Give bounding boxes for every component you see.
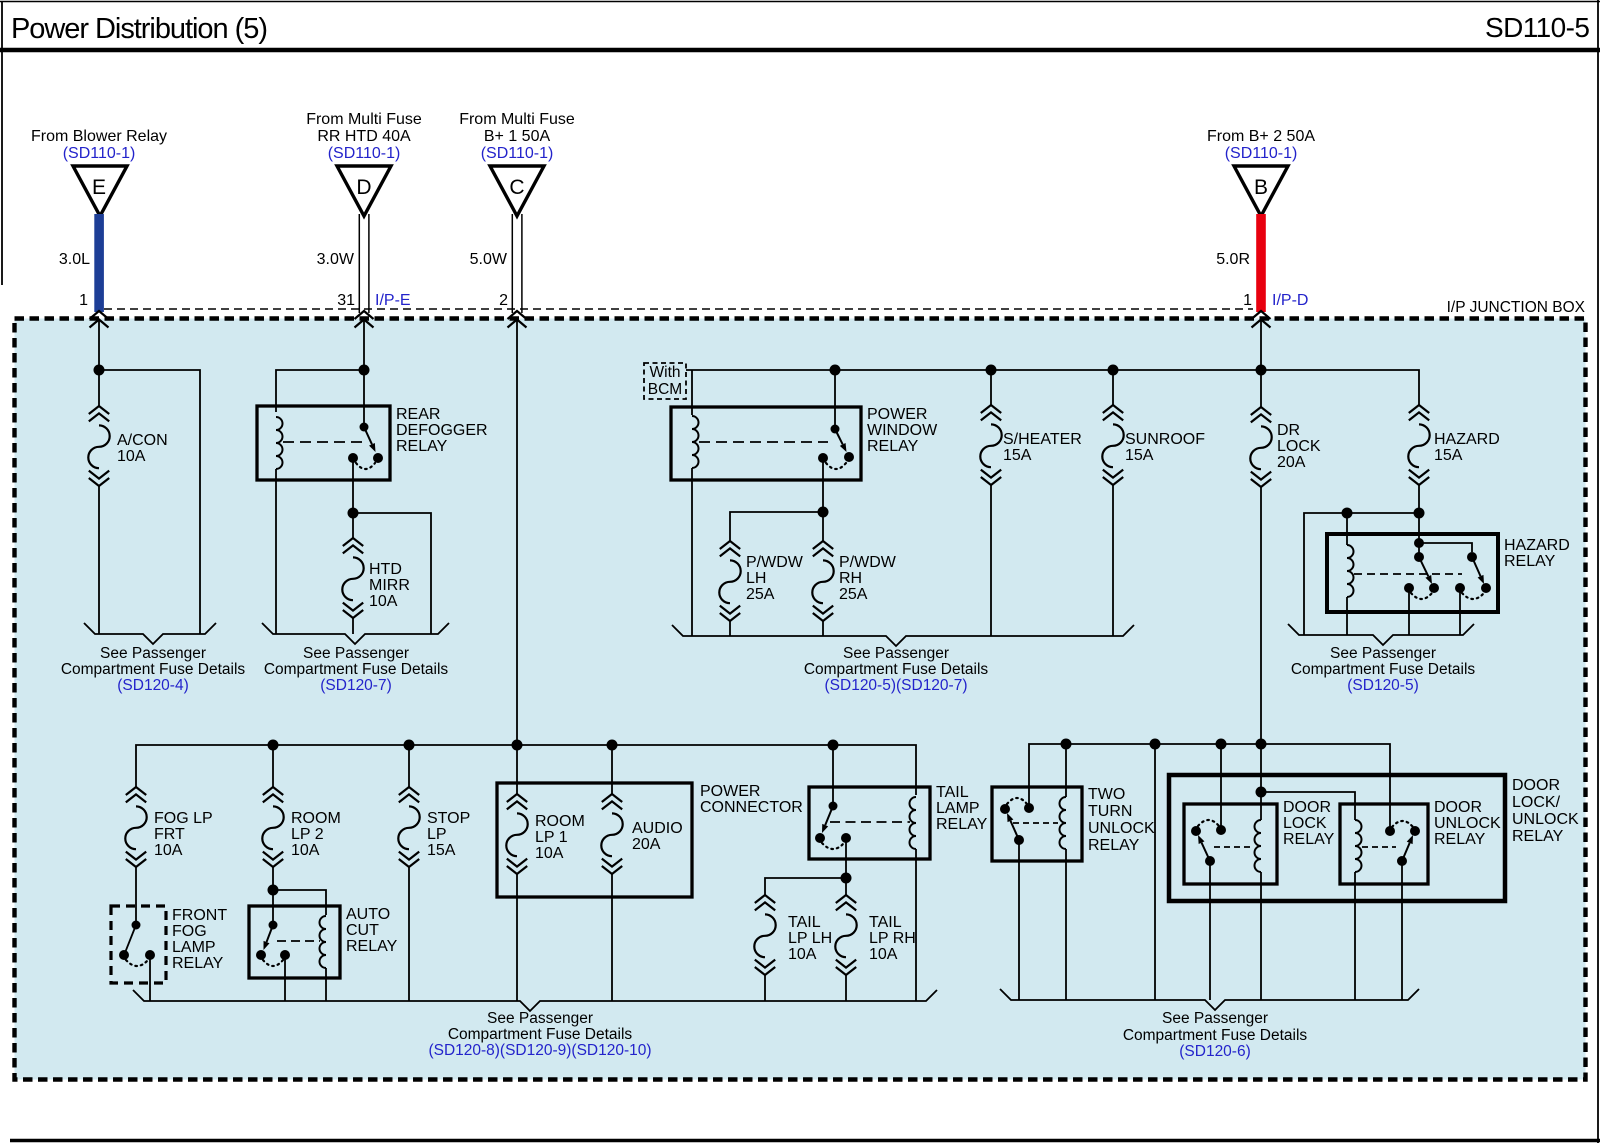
- svg-text:I/P-D: I/P-D: [1272, 292, 1308, 309]
- svg-text:(SD120-6): (SD120-6): [1179, 1043, 1251, 1060]
- svg-text:Compartment Fuse Details: Compartment Fuse Details: [1123, 1027, 1308, 1044]
- switch AUTO CUT: [269, 921, 278, 930]
- dashed actuator line: [1362, 846, 1396, 848]
- node auto cut split: [268, 885, 279, 896]
- wire to relay switch: [363, 370, 365, 427]
- wire two turn coil out: [1065, 861, 1067, 1000]
- fuse SUNROOF 15A: [1103, 405, 1123, 420]
- fuse ROOM LP 1 10A: [507, 794, 527, 809]
- svg-text:CUT: CUT: [346, 922, 379, 939]
- svg-text:DOOR: DOOR: [1434, 799, 1482, 816]
- page top border: [0, 1, 1600, 3]
- svg-text:TAIL: TAIL: [869, 914, 902, 931]
- wire bus to PW switch: [834, 370, 836, 429]
- fuse AUDIO 20A: [602, 794, 622, 809]
- node bus2 spare: [1150, 739, 1161, 750]
- svg-text:(SD120-7): (SD120-7): [320, 677, 392, 694]
- fuse DR LOCK 20A: [1251, 407, 1271, 422]
- wire 5.0W (double line): [511, 214, 513, 313]
- svg-text:15A: 15A: [1125, 447, 1154, 464]
- fuse P/WDW RH 25A: [813, 541, 833, 556]
- wire door unlock sw out: [1401, 861, 1403, 1000]
- brace group SD120-5 SD120-7: [672, 625, 1134, 646]
- svg-text:See Passenger: See Passenger: [1162, 1010, 1268, 1027]
- connector C triangle: [490, 166, 544, 216]
- wire to ROOM LP2: [272, 745, 274, 787]
- relay TAIL LAMP box: [809, 787, 930, 859]
- brace group SD120-6: [1000, 989, 1419, 1010]
- node hazard coil feed: [1342, 508, 1353, 519]
- coil TWO TURN UNLOCK: [1060, 797, 1067, 849]
- middle bus wire: [686, 370, 1419, 405]
- svg-text:TAIL: TAIL: [936, 784, 969, 801]
- svg-text:POWER: POWER: [867, 406, 927, 423]
- entry arrow D: [355, 311, 374, 328]
- node bus SUNROOF: [1108, 365, 1119, 376]
- wire two turn sw out: [1018, 840, 1020, 1000]
- fuse STOP LP 15A: [399, 787, 419, 802]
- svg-text:I/P-E: I/P-E: [375, 292, 411, 309]
- svg-text:B: B: [1254, 176, 1268, 199]
- coil DOOR LOCK: [1255, 820, 1262, 872]
- svg-text:10A: 10A: [869, 946, 898, 963]
- node E split: [94, 365, 105, 376]
- wire to door unlock coil: [1261, 792, 1355, 820]
- coil POWER WINDOW: [692, 416, 699, 468]
- svg-text:10A: 10A: [535, 845, 564, 862]
- svg-text:From Multi Fuse: From Multi Fuse: [306, 111, 422, 128]
- page left border (partial): [1, 2, 3, 285]
- svg-text:S/HEATER: S/HEATER: [1003, 431, 1082, 448]
- svg-text:STOP: STOP: [427, 810, 470, 827]
- wire sw2 out to brace: [1459, 588, 1461, 635]
- wire to two turn coil: [1065, 744, 1067, 797]
- wire branch to TAIL LP LH: [765, 878, 846, 895]
- POWER CONNECTOR box: [497, 783, 692, 897]
- svg-text:See Passenger: See Passenger: [487, 1010, 593, 1027]
- wire RH to brace: [822, 621, 824, 636]
- svg-text:ROOM: ROOM: [535, 813, 585, 830]
- wire to AUDIO: [611, 745, 613, 794]
- header rule: [0, 48, 1600, 53]
- wire S/HEATER to brace: [990, 485, 992, 636]
- node bus1 ROOM LP2: [268, 740, 279, 751]
- wire PW coil to brace: [691, 480, 693, 636]
- svg-text:WINDOW: WINDOW: [867, 422, 938, 439]
- node PW out: [818, 507, 829, 518]
- svg-text:D: D: [356, 176, 371, 199]
- svg-text:HAZARD: HAZARD: [1504, 537, 1570, 554]
- svg-text:See Passenger: See Passenger: [843, 645, 949, 662]
- svg-text:BCM: BCM: [648, 381, 682, 398]
- relay DOOR LOCK/UNLOCK outer box: [1169, 775, 1505, 901]
- switch FRONT FOG LAMP: [132, 921, 141, 930]
- svg-text:DR: DR: [1277, 422, 1300, 439]
- wire auto cut coil out: [325, 978, 327, 1001]
- wire D entry down: [363, 320, 365, 370]
- wire to auto cut coil: [273, 890, 326, 915]
- wire to door lock switch: [1220, 744, 1222, 830]
- node bus1 C feed: [512, 740, 523, 751]
- entry arrow C: [508, 311, 527, 328]
- svg-text:LP: LP: [427, 826, 447, 843]
- svg-text:5.0R: 5.0R: [1216, 251, 1250, 268]
- svg-text:10A: 10A: [788, 946, 817, 963]
- svg-text:See Passenger: See Passenger: [1330, 645, 1436, 662]
- svg-text:Compartment Fuse Details: Compartment Fuse Details: [448, 1026, 633, 1043]
- connector E triangle: [73, 166, 127, 216]
- page right border: [1597, 0, 1599, 1143]
- node hazard sw junction: [1414, 538, 1424, 548]
- relay FRONT FOG LAMP box (dashed): [111, 906, 166, 983]
- svg-text:3.0L: 3.0L: [59, 251, 90, 268]
- wire to STOP LP: [408, 745, 410, 787]
- coil DOOR UNLOCK: [1355, 820, 1362, 872]
- svg-text:A/CON: A/CON: [117, 432, 168, 449]
- brace group SD120-8 9 10: [133, 990, 937, 1011]
- dashed actuator line: [699, 441, 828, 443]
- wire 3.0L (blue): [94, 214, 104, 312]
- svg-text:(SD110-1): (SD110-1): [1225, 145, 1298, 162]
- wire 5.0R (red): [1256, 214, 1266, 312]
- fuse S/HEATER 15A: [981, 405, 1001, 420]
- node bus1 STOP LP: [404, 740, 415, 751]
- wire to TAIL LP RH: [845, 878, 847, 895]
- wire switch out: [352, 458, 354, 513]
- svg-text:MIRR: MIRR: [369, 577, 410, 594]
- wire A/CON to brace: [98, 486, 100, 634]
- svg-text:C: C: [509, 176, 524, 199]
- svg-text:Compartment Fuse Details: Compartment Fuse Details: [264, 661, 449, 678]
- switch 1 HAZARD: [1414, 552, 1424, 562]
- wire sw1 out to brace: [1408, 588, 1410, 635]
- wire bus2 spare to brace: [1154, 744, 1156, 1000]
- wire tail switch out: [845, 838, 847, 878]
- svg-text:LOCK: LOCK: [1283, 815, 1327, 832]
- coil REAR DEFOGGER: [276, 417, 283, 469]
- svg-text:LAMP: LAMP: [172, 939, 216, 956]
- svg-text:FRT: FRT: [154, 826, 185, 843]
- wire to P/WDW RH: [822, 512, 824, 541]
- svg-text:RELAY: RELAY: [867, 438, 919, 455]
- svg-text:P/WDW: P/WDW: [839, 554, 897, 571]
- wire SUNROOF to brace: [1112, 485, 1114, 636]
- connector row dashed line: [104, 308, 1253, 310]
- svg-text:20A: 20A: [632, 836, 661, 853]
- wire DR LOCK feed into outer box: [1260, 744, 1262, 820]
- switch TAIL LAMP: [829, 802, 838, 811]
- node D split: [359, 365, 370, 376]
- relay POWER WINDOW box: [671, 407, 861, 480]
- svg-text:See Passenger: See Passenger: [100, 645, 206, 662]
- svg-text:15A: 15A: [1003, 447, 1032, 464]
- svg-text:10A: 10A: [369, 593, 398, 610]
- node tail split: [841, 873, 852, 884]
- svg-text:RELAY: RELAY: [172, 955, 224, 972]
- svg-text:AUDIO: AUDIO: [632, 820, 683, 837]
- svg-text:Compartment Fuse Details: Compartment Fuse Details: [61, 661, 246, 678]
- svg-text:DOOR: DOOR: [1283, 799, 1331, 816]
- svg-text:(SD120-4): (SD120-4): [117, 677, 189, 694]
- node bus B feed: [1256, 365, 1267, 376]
- node bus1 AUDIO: [607, 740, 618, 751]
- wire to switch 2: [1419, 543, 1472, 552]
- wire STOP LP to brace: [408, 867, 410, 1001]
- svg-text:RELAY: RELAY: [396, 438, 448, 455]
- svg-text:(SD110-1): (SD110-1): [63, 145, 136, 162]
- svg-text:31: 31: [337, 292, 355, 309]
- fuse HAZARD 15A: [1409, 405, 1429, 420]
- connector D triangle: [337, 166, 391, 216]
- wire DR LOCK to bottom bus: [1260, 487, 1262, 744]
- dashed actuator line: [1214, 846, 1254, 848]
- switch DOOR UNLOCK: [1385, 826, 1395, 836]
- wire E entry down: [98, 320, 100, 370]
- svg-text:TAIL: TAIL: [788, 914, 821, 931]
- node bus2 two turn coil: [1061, 739, 1072, 750]
- wire to hazard coil: [1346, 513, 1348, 545]
- wire HAZARD out: [1418, 485, 1420, 557]
- wire to A/CON fuse: [98, 370, 100, 406]
- node hazard split: [1414, 508, 1425, 519]
- wire auto cut sw out: [284, 955, 286, 1001]
- svg-text:10A: 10A: [154, 842, 183, 859]
- wire TAIL RH to brace: [845, 975, 847, 1001]
- svg-text:LP 1: LP 1: [535, 829, 568, 846]
- coil HAZARD: [1347, 545, 1354, 597]
- wire LH to brace: [729, 621, 731, 636]
- node bus S/HEATER: [986, 365, 997, 376]
- svg-text:See Passenger: See Passenger: [303, 645, 409, 662]
- wire door lock sw out: [1209, 861, 1211, 1000]
- coil AUTO CUT: [320, 916, 327, 968]
- bus1 wire: [136, 745, 916, 795]
- svg-text:UNLOCK: UNLOCK: [1434, 815, 1501, 832]
- svg-text:10A: 10A: [117, 448, 146, 465]
- fuse P/WDW LH 25A: [720, 541, 740, 556]
- svg-text:1: 1: [1243, 292, 1252, 309]
- svg-text:Power Distribution (5): Power Distribution (5): [11, 13, 268, 45]
- wire PW switch out: [822, 458, 824, 512]
- node bus1 tail relay: [828, 740, 839, 751]
- wire branch right: [353, 513, 431, 634]
- relay HAZARD box: [1327, 534, 1498, 612]
- brace group SD120-7: [262, 623, 449, 644]
- svg-text:LAMP: LAMP: [936, 800, 980, 817]
- wire tail coil to brace: [915, 859, 917, 1001]
- svg-text:P/WDW: P/WDW: [746, 554, 804, 571]
- svg-text:HTD: HTD: [369, 561, 402, 578]
- svg-text:Compartment Fuse Details: Compartment Fuse Details: [1291, 661, 1476, 678]
- node bus2 door lock sw: [1216, 739, 1227, 750]
- svg-text:Compartment Fuse Details: Compartment Fuse Details: [804, 661, 989, 678]
- svg-text:(SD120-8)(SD120-9)(SD120-10): (SD120-8)(SD120-9)(SD120-10): [428, 1042, 651, 1059]
- relay TWO TURN UNLOCK box: [992, 787, 1082, 861]
- wire TAIL LH to brace: [764, 975, 766, 1001]
- brace group SD120-4: [84, 623, 216, 644]
- wire to HTD MIRR fuse: [352, 513, 354, 538]
- svg-text:From Multi Fuse: From Multi Fuse: [459, 111, 575, 128]
- wire fog relay out: [149, 955, 151, 1001]
- svg-text:5.0W: 5.0W: [470, 251, 508, 268]
- svg-text:RELAY: RELAY: [1504, 553, 1556, 570]
- svg-text:RELAY: RELAY: [1512, 828, 1564, 845]
- svg-text:SUNROOF: SUNROOF: [1125, 431, 1205, 448]
- fuse A/CON 10A: [89, 406, 109, 421]
- connector B triangle: [1234, 166, 1288, 216]
- relay REAR DEFOGGER box: [257, 406, 390, 480]
- svg-text:20A: 20A: [1277, 454, 1306, 471]
- wire to DR LOCK fuse: [1260, 370, 1262, 407]
- svg-text:(SD110-1): (SD110-1): [328, 145, 401, 162]
- svg-text:1: 1: [79, 292, 88, 309]
- svg-text:15A: 15A: [427, 842, 456, 859]
- dashed actuator line: [1013, 822, 1058, 824]
- svg-text:2: 2: [499, 292, 508, 309]
- wire AUDIO to brace: [611, 874, 613, 1001]
- fuse TAIL LP LH 10A: [755, 895, 775, 910]
- switch REAR DEFOGGER: [360, 423, 369, 432]
- svg-text:25A: 25A: [839, 586, 868, 603]
- wire to ROOM LP1: [516, 745, 518, 794]
- wire fuse to node: [272, 867, 274, 925]
- wire to relay coil: [276, 370, 364, 412]
- fuse FOG LP FRT 10A: [126, 787, 146, 802]
- wire branch right: [99, 370, 200, 634]
- svg-text:(SD120-5)(SD120-7): (SD120-5)(SD120-7): [825, 677, 968, 694]
- wire door lock coil out: [1260, 884, 1262, 1000]
- svg-text:UNLOCK: UNLOCK: [1512, 811, 1579, 828]
- svg-text:DOOR: DOOR: [1512, 777, 1560, 794]
- wire to tail relay switch: [832, 745, 834, 806]
- switch 2 HAZARD: [1467, 552, 1477, 562]
- svg-text:3.0W: 3.0W: [317, 251, 355, 268]
- wire bus to SUNROOF: [1112, 370, 1114, 405]
- svg-text:ROOM: ROOM: [291, 810, 341, 827]
- svg-text:RELAY: RELAY: [1434, 831, 1486, 848]
- svg-text:DEFOGGER: DEFOGGER: [396, 422, 488, 439]
- switch TWO TURN UNLOCK: [1000, 804, 1010, 814]
- wire bus to PW coil: [691, 370, 693, 415]
- svg-text:POWER: POWER: [700, 783, 760, 800]
- switch DOOR LOCK: [1191, 826, 1201, 836]
- fuse TAIL LP RH 10A: [836, 895, 856, 910]
- entry arrow B: [1252, 311, 1271, 328]
- dashed actuator line: [1354, 573, 1462, 575]
- svg-text:LOCK: LOCK: [1277, 438, 1321, 455]
- svg-text:From B+ 2 50A: From B+ 2 50A: [1207, 128, 1315, 145]
- svg-text:FOG LP: FOG LP: [154, 810, 213, 827]
- svg-text:RH: RH: [839, 570, 862, 587]
- wire HTD MIRR to brace: [352, 618, 354, 634]
- entry arrow E: [90, 311, 109, 328]
- wire door unlock coil out: [1354, 884, 1356, 1000]
- svg-text:LP 2: LP 2: [291, 826, 324, 843]
- wire coil to brace: [275, 480, 277, 634]
- relay DOOR LOCK box: [1184, 804, 1277, 884]
- wire bus to S/HEATER: [990, 370, 992, 405]
- svg-text:(SD110-1): (SD110-1): [481, 145, 554, 162]
- svg-text:RELAY: RELAY: [936, 816, 988, 833]
- svg-text:LP RH: LP RH: [869, 930, 916, 947]
- relay AUTO CUT box: [249, 906, 340, 978]
- svg-text:(SD120-5): (SD120-5): [1347, 677, 1419, 694]
- svg-text:SD110-5: SD110-5: [1485, 12, 1590, 43]
- page bottom border: [10, 1139, 1600, 1143]
- svg-text:RELAY: RELAY: [1283, 831, 1335, 848]
- node bus PW switch: [830, 365, 841, 376]
- bus2 wire: [1029, 744, 1390, 831]
- svg-text:LP LH: LP LH: [788, 930, 832, 947]
- wire C entry to bottom bus: [516, 320, 518, 745]
- svg-text:UNLOCK: UNLOCK: [1088, 820, 1155, 837]
- svg-text:AUTO: AUTO: [346, 906, 390, 923]
- svg-text:CONNECTOR: CONNECTOR: [700, 799, 803, 816]
- wire branch to P/WDW LH: [730, 512, 823, 541]
- dashed actuator line: [277, 940, 320, 942]
- svg-text:RELAY: RELAY: [346, 938, 398, 955]
- node bus2 DR LOCK feed: [1256, 739, 1267, 750]
- svg-text:B+ 1 50A: B+ 1 50A: [484, 128, 551, 145]
- svg-text:TWO: TWO: [1088, 786, 1125, 803]
- wire ROOM LP1 to brace: [516, 874, 518, 1001]
- switch POWER WINDOW: [831, 425, 840, 434]
- coil TAIL LAMP: [910, 797, 917, 849]
- svg-text:10A: 10A: [291, 842, 320, 859]
- dashed actuator line: [830, 821, 910, 823]
- node door lock coil feed: [1256, 787, 1267, 798]
- svg-text:LH: LH: [746, 570, 766, 587]
- svg-text:15A: 15A: [1434, 447, 1463, 464]
- With BCM condition box: [644, 363, 686, 399]
- svg-text:25A: 25A: [746, 586, 775, 603]
- svg-text:I/P JUNCTION BOX: I/P JUNCTION BOX: [1447, 299, 1586, 316]
- svg-text:RELAY: RELAY: [1088, 837, 1140, 854]
- brace group SD120-5: [1288, 624, 1474, 645]
- wire 3.0W (double line): [358, 214, 360, 313]
- svg-text:From Blower Relay: From Blower Relay: [31, 128, 167, 145]
- I/P junction box (dashed, filled): [15, 319, 1586, 1080]
- relay DOOR UNLOCK box: [1340, 804, 1428, 884]
- svg-text:REAR: REAR: [396, 406, 440, 423]
- wire B entry down: [1260, 320, 1262, 370]
- svg-text:FRONT: FRONT: [172, 907, 227, 924]
- wire hazard coil to brace: [1346, 612, 1348, 635]
- node defogger out: [348, 508, 359, 519]
- dashed actuator line: [283, 441, 363, 443]
- wire hazard left branch: [1304, 513, 1419, 635]
- fuse ROOM LP 2 10A: [263, 787, 283, 802]
- svg-text:RR HTD 40A: RR HTD 40A: [317, 128, 411, 145]
- svg-text:With: With: [650, 364, 681, 381]
- svg-text:TURN: TURN: [1088, 803, 1132, 820]
- svg-text:HAZARD: HAZARD: [1434, 431, 1500, 448]
- svg-text:FOG: FOG: [172, 923, 207, 940]
- fuse HTD MIRR 10A: [343, 538, 363, 553]
- svg-text:LOCK/: LOCK/: [1512, 794, 1561, 811]
- svg-text:E: E: [92, 176, 106, 199]
- wire fog fuse to relay: [135, 867, 137, 925]
